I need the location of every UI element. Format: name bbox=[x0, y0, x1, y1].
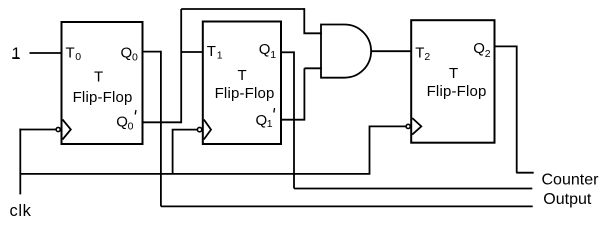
wire 1 to T0 input bbox=[30, 52, 62, 54]
wire Q0 riser down bbox=[160, 51, 162, 207]
svg-text:T: T bbox=[207, 43, 216, 60]
svg-text:0: 0 bbox=[75, 51, 81, 63]
clock wedge U2 bbox=[204, 120, 211, 140]
wire AND gate top input drop bbox=[304, 8, 322, 33]
svg-text:Q: Q bbox=[121, 45, 133, 62]
label T1 (U2 T input pin) bbox=[207, 43, 223, 62]
wire Q1 bus line bbox=[294, 188, 532, 190]
label T0 (U1 T input pin) bbox=[66, 45, 82, 63]
label Q1 (U2 output pin) bbox=[259, 41, 276, 61]
svg-text:1: 1 bbox=[267, 118, 273, 130]
wire top rail Q0' to AND gate bbox=[181, 8, 304, 10]
clock wedge U3 bbox=[412, 118, 421, 135]
svg-text:Output: Output bbox=[543, 191, 592, 208]
wire Q1' riser up to AND gate bbox=[303, 68, 305, 120]
svg-text:T: T bbox=[449, 65, 458, 82]
wire clk rail bbox=[20, 173, 370, 175]
label Q0' (U1 complement output pin) bbox=[116, 110, 136, 133]
svg-text:2: 2 bbox=[424, 51, 430, 63]
svg-text:Q: Q bbox=[259, 41, 271, 58]
wire T1 input branch bbox=[181, 51, 203, 53]
svg-text:T: T bbox=[415, 45, 424, 62]
wire AND gate output to T2 bbox=[371, 50, 411, 52]
wire Q0' output stub bbox=[143, 121, 182, 123]
clock bubble U1 bbox=[56, 127, 60, 131]
flip-flop U1 box bbox=[62, 22, 143, 144]
wire Q0' riser up bbox=[180, 9, 182, 123]
svg-text:clk: clk bbox=[10, 202, 32, 220]
and-gate U4 bbox=[321, 25, 371, 78]
svg-text:0: 0 bbox=[132, 52, 138, 64]
clock bubble U2 bbox=[197, 127, 201, 131]
wire Q0 output stub bbox=[143, 51, 161, 53]
flip-flop U2 box bbox=[203, 22, 281, 145]
svg-text:T: T bbox=[238, 67, 247, 84]
label U2 type "T Flip-Flop" bbox=[215, 67, 275, 102]
svg-text:1: 1 bbox=[12, 45, 21, 63]
wire Q2 riser down bbox=[516, 46, 518, 173]
clock wedge U1 bbox=[63, 120, 71, 140]
label Q1' (U2 complement output pin) bbox=[256, 108, 275, 130]
clock bubble U3 bbox=[406, 124, 410, 128]
svg-text:Flip-Flop: Flip-Flop bbox=[73, 89, 133, 106]
wire output bus line (Q0) bbox=[161, 205, 533, 207]
label Q2 (U3 output pin) bbox=[473, 40, 490, 60]
wire Q1 riser down bbox=[293, 51, 295, 188]
label Q0 (U1 output pin) bbox=[121, 45, 139, 64]
svg-text:0: 0 bbox=[128, 121, 134, 133]
wire clk riser to U3 clock input bbox=[370, 126, 407, 173]
svg-text:Q: Q bbox=[473, 40, 485, 57]
svg-text:Q: Q bbox=[116, 114, 128, 131]
wire Q1' output stub bbox=[281, 119, 305, 121]
wire clk vertical stub bbox=[19, 129, 21, 195]
svg-text:Flip-Flop: Flip-Flop bbox=[215, 85, 275, 102]
svg-text:T: T bbox=[94, 68, 103, 85]
flip-flop U3 box bbox=[411, 20, 494, 143]
svg-text:1: 1 bbox=[270, 49, 276, 61]
wire clk riser to U2 clock input bbox=[173, 130, 198, 174]
label U3 type "T Flip-Flop" bbox=[427, 65, 487, 100]
svg-text:2: 2 bbox=[485, 48, 491, 60]
svg-text:Flip-Flop: Flip-Flop bbox=[427, 83, 487, 100]
svg-text:1: 1 bbox=[217, 50, 223, 62]
svg-text:T: T bbox=[66, 45, 75, 62]
label U1 type "T Flip-Flop" bbox=[73, 68, 133, 106]
wire Q1 output stub bbox=[281, 51, 295, 53]
svg-text:Counter: Counter bbox=[542, 172, 600, 189]
label T2 (U3 T input pin) bbox=[415, 45, 430, 63]
svg-text:Q: Q bbox=[256, 112, 268, 129]
wire AND gate bottom input bbox=[304, 67, 322, 69]
wire clk to U1 clock input bbox=[19, 129, 56, 131]
wire Q2 output stub bbox=[495, 45, 517, 47]
wire counter bus line (Q2) bbox=[516, 172, 533, 174]
